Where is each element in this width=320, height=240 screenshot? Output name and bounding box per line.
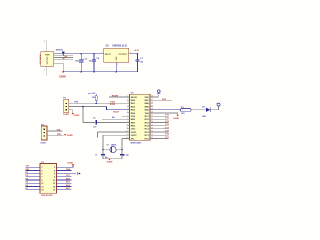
wire: U1 VDD pin to power symbol: [150, 94, 158, 97]
wire: C5 branch vertical from P2 pin2 run: [82, 107, 84, 123]
capacitor C7 plates: [136, 59, 140, 61]
resistor R2 pull-up top wire: [95, 94, 97, 96]
svg-text:D5: D5: [26, 182, 28, 184]
svg-text:3: 3: [41, 170, 42, 172]
svg-text:C5: C5: [93, 117, 95, 119]
power flag +3.3V for pull-up: [88, 92, 90, 94]
wire: P1 left pin 13: [26, 185, 41, 187]
svg-text:CON3: CON3: [40, 143, 46, 145]
J1 contact symbol 1: [46, 57, 47, 59]
junction: D1 / +V wire: [63, 53, 65, 55]
P2 pin marks: [65, 103, 67, 111]
U1 right pin numbers: [151, 96, 153, 139]
capacitor C1 top wire: [102, 150, 104, 155]
capacitor C2 bottom wire: [121, 156, 123, 159]
svg-text:OSC: OSC: [131, 129, 136, 131]
svg-text:15: 15: [41, 189, 43, 191]
svg-text:104: 104: [140, 61, 143, 64]
wire: step down to U1 RXD pin: [106, 107, 129, 110]
wire: output node down to C7: [137, 54, 139, 60]
wire: U1 pin2 net: [150, 99, 172, 101]
wire: OSC1 vertical: [102, 135, 104, 149]
wire: P1 left pin 1: [26, 166, 41, 168]
wire: P1 left pin 7: [26, 176, 41, 178]
capacitor C3 top wire: [80, 54, 82, 60]
svg-text:104: 104: [89, 59, 92, 62]
wire: U1 OSC1 pin to crystal: [103, 134, 130, 136]
wire: P1 left pin 3: [26, 169, 41, 171]
svg-text:11: 11: [41, 183, 43, 185]
wire: J1 ground pin to DGND corner: [54, 63, 64, 72]
wire: U1 right pin net P10: [150, 115, 169, 117]
wire: J1 pin1 to regulator input (+V rail): [54, 53, 104, 55]
P1 left pin numbers: [41, 167, 43, 191]
svg-text:RESET: RESET: [112, 96, 119, 98]
wire: U2 GND pin to ground rail: [115, 62, 117, 72]
svg-text:11: 11: [127, 128, 129, 130]
svg-text:INPUT: INPUT: [105, 54, 112, 56]
DGND power port (top rail): [62, 71, 64, 73]
svg-text:DGND: DGND: [67, 135, 73, 137]
svg-text:D6: D6: [26, 185, 28, 187]
wire: U1 right pin net P17: [150, 137, 169, 139]
svg-text:LED: LED: [202, 116, 207, 118]
svg-text:CON3: CON3: [63, 114, 69, 116]
connector P3: [41, 126, 47, 140]
svg-text:6: 6: [127, 112, 128, 114]
wire: U1 pin8 net: [102, 118, 130, 120]
wire: J1 pin2 stub: [54, 55, 73, 57]
svg-text:GM7805 (3.3): GM7805 (3.3): [112, 46, 127, 48]
svg-text:100u: 100u: [75, 61, 79, 63]
junction: C3 / ground rail: [80, 71, 82, 73]
wire: U1 pin12 net: [98, 131, 130, 133]
svg-text:AD0: AD0: [66, 177, 70, 180]
svg-text:GND: GND: [116, 56, 118, 61]
svg-text:6: 6: [54, 173, 55, 175]
svg-text:OSC2: OSC2: [131, 135, 138, 137]
svg-text:DC-JACK: DC-JACK: [39, 54, 42, 64]
J1 contact symbol 3: [46, 62, 47, 64]
wire: U1 right pin net P14: [150, 128, 169, 130]
DGND power port (U1 right): [176, 115, 178, 117]
svg-text:TXD: TXD: [74, 101, 79, 103]
svg-text:DGND: DGND: [107, 162, 113, 164]
resistor R1: [181, 109, 192, 112]
connector P1 (MOLEX 8x2): [40, 164, 57, 194]
wire: U1 pin7 stub (from x=122): [122, 115, 130, 117]
wire: P1 right pin 16: [57, 189, 72, 191]
svg-text:RXD: RXD: [57, 134, 62, 136]
svg-text:4MHz: 4MHz: [111, 143, 116, 146]
LED D2: [206, 108, 210, 112]
capacitor C1 plates: [101, 153, 105, 155]
port symbol (reset line): [77, 172, 79, 175]
U1 right pin names: [144, 97, 149, 140]
capacitor C1 bottom wire: [102, 156, 104, 159]
svg-text:VCC: VCC: [66, 175, 71, 177]
U1 right pin stubs: [150, 97, 153, 138]
wire: LED cathode to power port: [210, 106, 218, 110]
svg-text:MCLR: MCLR: [131, 97, 138, 99]
svg-text:C1: C1: [95, 154, 97, 156]
junction: C4 / ground rail: [93, 71, 95, 73]
junction: C4 / +V wire: [93, 53, 95, 55]
wire: U1 pin1 (MCLR) stub: [109, 96, 130, 98]
svg-text:2: 2: [54, 167, 55, 169]
svg-text:PWR: PWR: [45, 54, 50, 56]
svg-text:DGND: DGND: [74, 115, 80, 117]
wire: U1 pin5 to resistor R1: [150, 109, 181, 111]
wire: OSC2 vertical: [121, 138, 123, 149]
svg-text:25: 25: [151, 105, 153, 107]
junction: C3 / +V wire: [80, 53, 82, 55]
wire: P1 right pin 12: [57, 182, 72, 184]
wire: U1 pin6 to ground: [150, 113, 178, 115]
svg-text:INT0: INT0: [162, 99, 166, 101]
svg-text:D2: D2: [26, 172, 28, 174]
svg-text:2: 2: [117, 64, 118, 66]
power jack connector J1: [41, 52, 54, 67]
microcontroller U1: [130, 94, 151, 140]
junction: branch / P2 pin2 run: [82, 106, 84, 108]
wire: pin12 net vertical drop: [97, 132, 99, 137]
svg-text:13: 13: [41, 186, 43, 188]
wire: P1 right pin 14: [57, 185, 72, 187]
svg-text:OUTPUT: OUTPUT: [119, 54, 128, 56]
wire: P3 pin2 stub: [47, 134, 64, 136]
svg-text:26: 26: [151, 102, 153, 104]
DGND power port (P2): [72, 113, 74, 115]
wire: R1 to LED D2: [191, 109, 206, 111]
svg-text:OSC1: OSC1: [131, 132, 138, 134]
wire: TXD net from P2 pin1 to U1: [69, 102, 130, 104]
wire: C5 to U1 pin9: [97, 121, 130, 123]
capacitor C2 top wire: [121, 150, 123, 155]
wire: U1 right pin net P11: [150, 118, 169, 120]
svg-text:7: 7: [41, 177, 42, 179]
svg-text:10: 10: [53, 180, 55, 182]
wire: U1 right pin net P15: [150, 131, 169, 133]
capacitor C3 bottom wire: [80, 62, 82, 72]
wire: P1 left pin 9: [26, 179, 41, 181]
junction: OSC2/C2 node: [121, 149, 123, 151]
wire: P1 right pin 8: [57, 176, 72, 178]
svg-text:TX0: TX0: [26, 166, 29, 168]
wire: P3 pin1 stub: [47, 130, 62, 132]
svg-text:12: 12: [53, 183, 55, 185]
extra net note (red): [64, 134, 66, 136]
svg-text:GND: GND: [66, 169, 71, 171]
capacitor C4 bottom wire: [93, 61, 95, 72]
wire: P1 left pin 5: [26, 173, 41, 175]
resistor R2 pull-up body: [95, 96, 97, 101]
U1 left pin numbers: [126, 96, 128, 139]
svg-text:8: 8: [54, 177, 55, 179]
svg-text:DGND: DGND: [67, 163, 73, 165]
power jack J1 mounting line (bottom): [46, 66, 48, 75]
svg-text:DGND: DGND: [59, 76, 66, 78]
svg-text:MOLEX-8X2: MOLEX-8X2: [41, 195, 53, 197]
svg-text:RX0: RX0: [26, 169, 30, 171]
wire: U1 OSC2 pin to crystal: [122, 137, 130, 139]
svg-text:DGND: DGND: [173, 118, 179, 120]
wire: J1 pin4 stub: [54, 58, 73, 60]
U1 left pin stubs: [127, 97, 130, 138]
wire: P1 left pin 11: [26, 182, 41, 184]
J1 switch lever: [63, 56, 68, 60]
wire: U1 right pin net P13: [150, 125, 169, 127]
svg-text:AD1: AD1: [66, 181, 70, 184]
wire: P2 pin3 to ground: [69, 110, 73, 113]
capacitor C3 plates: [79, 59, 84, 61]
wire: J1 pin3 stub: [54, 57, 73, 59]
svg-text:MCLR: MCLR: [113, 112, 119, 114]
wire: U1 right pin net P16: [150, 134, 169, 136]
J1 contact symbol 2: [46, 59, 47, 61]
svg-text:4: 4: [127, 105, 128, 107]
crystal Y1 body: [110, 147, 116, 153]
svg-text:VSS: VSS: [145, 113, 150, 115]
P3 pin marks: [43, 129, 45, 137]
wire: P2 pin2 run: [69, 106, 107, 108]
wire: P1 left pin 15: [26, 189, 41, 191]
svg-text:TXD: TXD: [57, 129, 61, 131]
svg-text:2: 2: [127, 99, 128, 101]
U1 left pin names: [131, 97, 138, 140]
svg-text:1: 1: [102, 52, 103, 54]
DGND power port (crystal): [108, 159, 110, 161]
wire: into series capacitor C5: [83, 121, 95, 123]
P1 right pin numbers: [53, 167, 56, 191]
J1 switch mark: [63, 55, 65, 57]
svg-text:D3: D3: [26, 175, 28, 177]
ground rail wire (top section): [63, 71, 137, 73]
capacitor C7 bottom wire to ground rail: [137, 61, 139, 72]
wire: P1 pin2 to DGND: [57, 166, 74, 167]
wire: crystal right lead: [116, 149, 122, 151]
svg-text:+3.3V: +3.3V: [90, 93, 96, 95]
svg-text:VSS: VSS: [131, 116, 136, 118]
svg-text:AD2: AD2: [66, 184, 70, 187]
svg-text:5: 5: [41, 173, 42, 175]
svg-text:D7: D7: [26, 188, 28, 190]
wire: P1 right pin 4: [57, 169, 72, 171]
connector P2: [64, 99, 69, 112]
diode D1 (vertical, above +V wire): [62, 50, 65, 52]
svg-text:9: 9: [41, 180, 42, 182]
wire: U2 output: [129, 53, 138, 55]
capacitor C5 plates (series): [94, 120, 96, 124]
junction: U2 GND / ground rail: [115, 71, 117, 73]
capacitor C2 plates: [120, 153, 124, 155]
svg-text:16: 16: [53, 189, 55, 191]
svg-text:AT89C2051: AT89C2051: [130, 142, 142, 145]
power jack J1 mounting line (top): [46, 40, 48, 51]
power port +5V symbol (above U1): [157, 92, 161, 94]
svg-text:RXD0: RXD0: [110, 104, 116, 106]
svg-text:AD3: AD3: [66, 187, 70, 190]
svg-text:1: 1: [41, 167, 42, 169]
power port symbol (right of LED): [217, 103, 220, 106]
junction: output node: [137, 53, 139, 55]
junction: OSC1/C1 node: [102, 149, 104, 151]
capacitor C4 plates: [92, 59, 96, 61]
wire: P1 pin6 to port arrow: [57, 173, 77, 175]
crystal ground rail: [103, 158, 122, 160]
DGND power port (P1): [72, 164, 75, 166]
voltage regulator U2: [104, 48, 129, 62]
svg-text:+3.3V: +3.3V: [134, 50, 140, 52]
wire: U1 right pin net P12: [150, 121, 169, 123]
capacitor C4 top wire: [93, 54, 95, 60]
resistor R2 bottom wire: [95, 100, 97, 103]
wire: crystal left lead: [103, 149, 110, 151]
svg-text:10: 10: [126, 124, 128, 126]
wire: P1 right pin 10: [57, 179, 72, 181]
svg-text:VDD: VDD: [144, 97, 149, 99]
svg-text:C2 15p: C2 15p: [123, 155, 130, 157]
junction: R2 / TXD wire: [95, 103, 97, 105]
